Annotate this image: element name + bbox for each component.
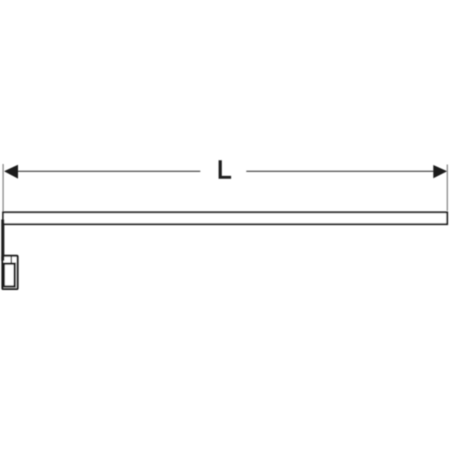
clamp outer body <box>2 256 17 289</box>
arrowhead left <box>4 165 18 179</box>
dimension line right segment <box>246 170 435 172</box>
label L <box>219 160 232 178</box>
extension line right <box>446 165 448 211</box>
clamp inner profile <box>4 264 15 287</box>
extension line left <box>2 164 4 213</box>
arrowhead right <box>433 165 447 178</box>
clamp slot divider <box>10 256 12 263</box>
glass panel edge <box>1 220 4 261</box>
dimension line left segment <box>16 170 200 172</box>
bar (rail) <box>3 212 447 224</box>
